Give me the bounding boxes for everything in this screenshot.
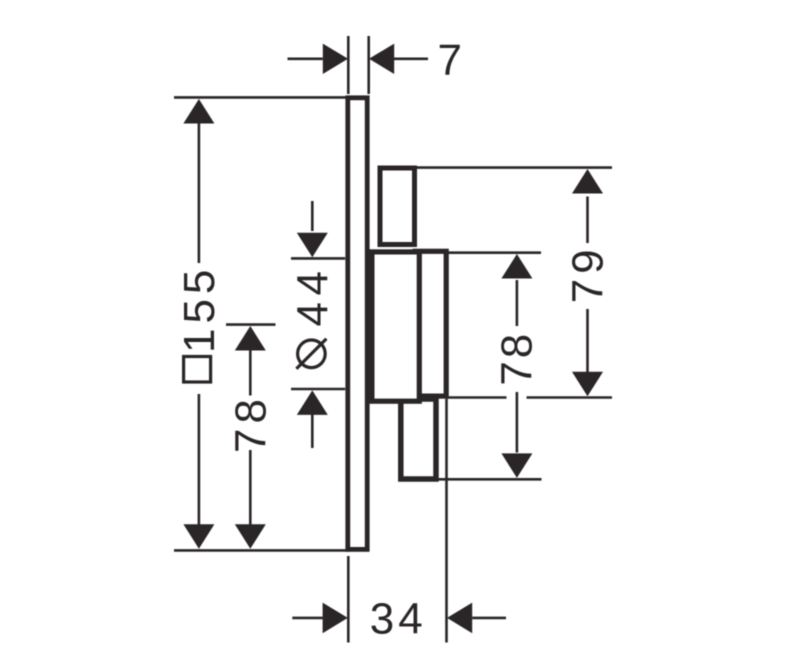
tick line, dim 78 right, bottom <box>435 478 542 481</box>
dimension line, dim 79, lower segment <box>586 309 589 372</box>
cartridge housing (right protrusion) <box>415 251 446 396</box>
lower supply pipe (side view) <box>401 399 436 479</box>
dimension line, dim 78 left, lower segment <box>249 450 252 525</box>
extension line, dim 34, left <box>347 556 350 643</box>
arrowhead, dim 7, pointing right <box>323 44 348 74</box>
arrowhead, dim 155, pointing up <box>183 99 214 124</box>
arrowhead, dim 155, pointing down <box>183 524 214 549</box>
square symbol of label "square 155" <box>184 357 211 383</box>
svg-text:34: 34 <box>370 594 427 643</box>
tick line, dim 79, top <box>417 166 613 169</box>
dimension line tail, dim diameter 44, upper <box>311 201 314 231</box>
dimension line tail, dim 34, left <box>292 617 322 620</box>
arrowhead, dim 7, pointing left <box>369 44 394 74</box>
arrowhead, dim 34, pointing left <box>447 603 472 634</box>
svg-text:78: 78 <box>226 394 275 453</box>
dimension line, dim 79, upper segment <box>586 197 589 244</box>
upper supply pipe (side view) <box>380 168 415 245</box>
arrowhead, dim diameter 44, pointing down <box>297 233 328 258</box>
dimension line, dim 78 right, upper segment <box>516 280 519 326</box>
tick line, dim 78 left, top <box>226 323 276 326</box>
tick line, dim 79, bottom, right piece <box>527 396 613 399</box>
tick line, dim 78 right, top <box>449 251 542 254</box>
arrowhead, dim 78 right, pointing down <box>501 453 532 478</box>
tick line, dim 79, bottom, left piece <box>446 396 507 399</box>
arrowhead, dim 78 right, pointing up <box>501 254 532 279</box>
tick line, dim 155, top <box>174 96 347 99</box>
extension line, dim 34, right <box>445 399 448 643</box>
arrowhead, dim 78 left, pointing down <box>235 524 266 549</box>
diameter symbol slash <box>296 339 326 369</box>
dimension line tail, dim 7, right <box>394 57 428 60</box>
svg-text:44: 44 <box>288 265 337 327</box>
wall plate (escutcheon, side view) <box>348 98 367 550</box>
svg-text:7: 7 <box>438 36 462 85</box>
svg-text:79: 79 <box>564 244 613 303</box>
diameter symbol circle <box>298 340 326 368</box>
tick line, dim diameter 44, top <box>291 257 345 260</box>
tick line, dim diameter 44, bottom <box>291 388 345 391</box>
dimension line tail, dim diameter 44, lower <box>311 415 314 449</box>
dimension line tail, dim 7, left <box>288 57 323 60</box>
dimension line, dim 78 right, lower segment <box>516 392 519 453</box>
dimension line, dim 155, lower segment <box>198 394 201 526</box>
extension line, dim 7, left <box>347 36 350 94</box>
dimension line tail, dim 34, right <box>472 617 506 620</box>
tick line, dim 155 / dim 78 left, bottom <box>174 549 350 552</box>
arrowhead, dim 79, pointing down <box>572 372 603 397</box>
dimension line, dim 78 left, upper segment <box>249 350 252 396</box>
svg-text:78: 78 <box>493 331 542 386</box>
valve main body <box>372 252 419 401</box>
extension line, dim 7, right <box>367 36 370 94</box>
arrowhead, dim 34, pointing right <box>323 603 348 634</box>
svg-text:155: 155 <box>175 265 224 353</box>
dimension line, dim 155, upper segment <box>198 123 201 264</box>
arrowhead, dim 79, pointing up <box>572 169 603 194</box>
arrowhead, dim 78 left, pointing up <box>235 326 266 351</box>
arrowhead, dim diameter 44, pointing up <box>297 390 328 415</box>
